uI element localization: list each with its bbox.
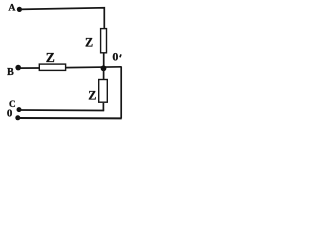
svg-text:0: 0	[7, 108, 13, 120]
wire from Z(C) bottom to C line	[102, 103, 104, 111]
wire from node 0' down to Z (phase C)	[103, 68, 105, 79]
node B terminal dot	[15, 65, 21, 71]
wire from C to Z(C) stub	[19, 109, 104, 112]
svg-text:Z: Z	[88, 89, 96, 103]
svg-text:0: 0	[112, 50, 118, 64]
node A terminal dot	[17, 7, 22, 12]
wire from Z(B) to right side	[66, 66, 122, 69]
svg-text:B: B	[7, 67, 14, 78]
wire from Z(A) bottom to node 0'	[103, 54, 105, 69]
wire from B to impedance box	[18, 67, 40, 69]
svg-text:A: A	[8, 3, 15, 14]
node 0' junction dot	[101, 65, 107, 71]
right vertical wire from node 0' to neutral wire	[120, 67, 122, 119]
svg-text:Z: Z	[85, 36, 93, 50]
prime mark of 0'	[120, 54, 121, 57]
neutral wire from 0 to right side	[18, 117, 122, 119]
svg-text:Z: Z	[46, 50, 55, 65]
impedance Z (phase C, vertical box)	[99, 80, 108, 103]
wire from A to top-right corner	[19, 8, 104, 29]
node C terminal dot	[17, 107, 22, 112]
node 0 terminal dot	[15, 115, 20, 120]
impedance Z (phase A, vertical box)	[101, 29, 107, 53]
impedance Z (phase B, horizontal box)	[39, 64, 65, 70]
